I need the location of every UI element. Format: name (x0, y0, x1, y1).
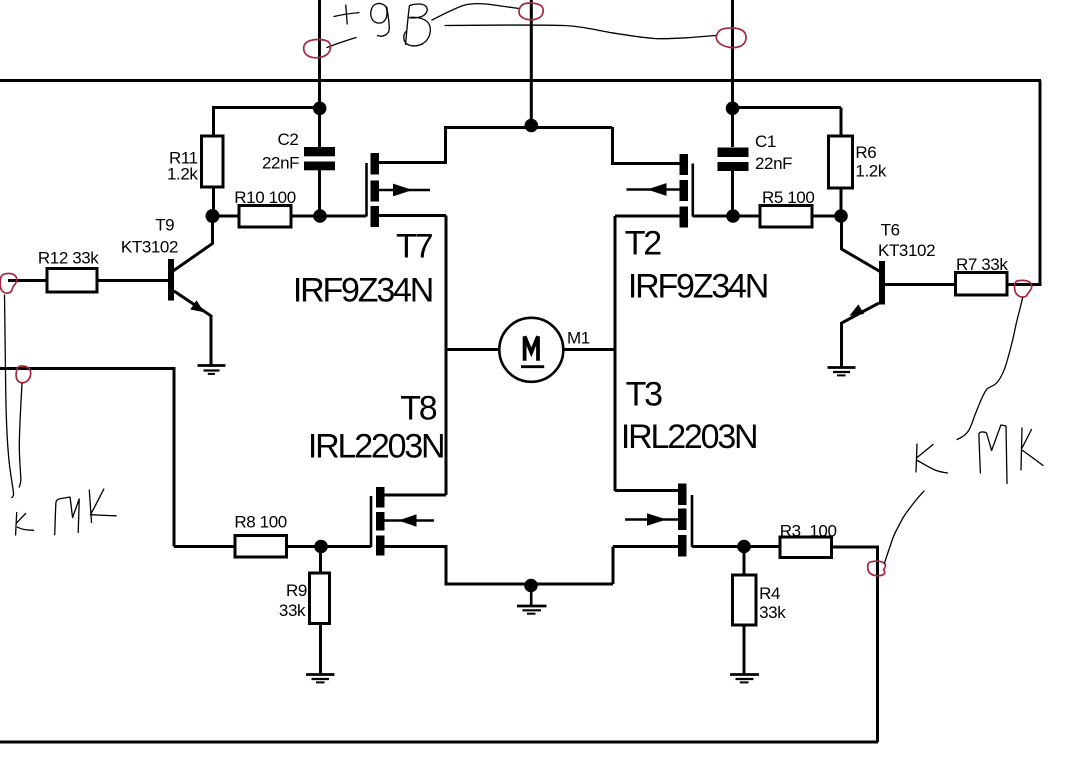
wire top link rail between T7 and T2 (444, 126, 612, 129)
node junction dot right supply (726, 102, 740, 116)
resistor R9 (310, 573, 330, 624)
resistor R8 (235, 536, 287, 558)
wire motor left lead (446, 348, 500, 351)
node junction dot R8/R9/T8 gate (314, 540, 328, 554)
svg-text:C2: C2 (278, 130, 299, 149)
svg-text:R7 33k: R7 33k (956, 255, 1008, 274)
svg-text:R10 100: R10 100 (234, 188, 295, 207)
svg-text:R4: R4 (759, 584, 780, 603)
svg-text:33k: 33k (759, 603, 786, 622)
handwriting right letter k (916, 444, 948, 473)
wire R3 to right vertical (832, 546, 880, 549)
handwriting left letter M (55, 497, 79, 535)
node junction dot C1/T2 gate (726, 209, 740, 223)
svg-text:M1: M1 (567, 329, 590, 348)
ground T9 (198, 364, 226, 367)
wire left edge to R12 (8, 279, 47, 282)
wire T7 source to top link (379, 127, 446, 164)
wire C2 node to T7 gate (320, 215, 366, 218)
handwriting letter V of +9V (404, 4, 431, 46)
red circle R3 output (868, 561, 886, 576)
wire T3 drain to right bridge node (615, 489, 678, 492)
wire right supply vertical (731, 0, 734, 147)
transistor T9 emitter arrow (190, 300, 204, 312)
handwriting right lead curve to R3 circle (885, 491, 925, 563)
transistor T3 body line and arrow (625, 518, 678, 521)
svg-text:IRF9Z34N: IRF9Z34N (293, 272, 432, 310)
svg-text:R9: R9 (286, 581, 307, 600)
svg-text:22nF: 22nF (262, 154, 299, 173)
motor M1 circle (499, 318, 563, 382)
resistor R9 leads (319, 547, 322, 675)
wire node to R10 (212, 215, 239, 218)
resistor R3 (780, 537, 832, 558)
svg-text:T6: T6 (881, 221, 900, 240)
node junction dot R11/R10/T9 (206, 209, 220, 223)
resistor R5 (760, 206, 812, 228)
wire node to T8 gate (321, 545, 371, 548)
node junction dot C2/R10/T7 gate (313, 209, 327, 223)
resistor R10 (239, 206, 291, 228)
red circle right supply tap (716, 28, 746, 48)
svg-text:R6: R6 (855, 143, 876, 162)
wire from left supply node to R11 (214, 108, 320, 137)
wire T3 gate to R3 (692, 545, 780, 548)
svg-text:KT3102: KT3102 (878, 241, 935, 260)
transistor T7 gate line (365, 163, 368, 217)
transistor T3 channel bars (678, 484, 687, 506)
ground R4 (730, 673, 759, 676)
red circle left lower input (16, 366, 31, 383)
handwriting plus sign of +9V (334, 5, 359, 24)
ground center (517, 605, 547, 608)
handwriting right letter K (1021, 428, 1043, 470)
transistor T7 body line and arrow (379, 189, 430, 192)
transistor T9 collector wire (173, 219, 213, 271)
wire top power rail (0, 79, 1041, 82)
node junction dot bottom ground (524, 579, 538, 593)
node junction dot left supply (313, 102, 327, 116)
wire right supply drop to R7 (1007, 81, 1040, 285)
handwriting squiggle V to middle circle (432, 4, 519, 20)
transistor T8 body line and arrow (385, 519, 435, 522)
wire C2 bottom to node (318, 170, 321, 210)
node junction dot middle top link (525, 119, 539, 133)
ground R9 (306, 673, 335, 676)
wire bottom ground link (445, 547, 614, 585)
resistor R4 (733, 575, 757, 625)
svg-text:KT3102: KT3102 (121, 238, 178, 257)
wire motor right lead (563, 348, 615, 351)
svg-text:IRF9Z34N: IRF9Z34N (628, 268, 767, 306)
svg-text:R8 100: R8 100 (234, 513, 286, 532)
wire R8 to R9 node (287, 545, 323, 548)
handwriting squiggle middle to right circle (445, 25, 717, 39)
capacitor C2 (304, 147, 335, 156)
svg-text:T2: T2 (625, 225, 662, 263)
transistor T8 channel bars (376, 487, 385, 508)
wire left MCU line to R8 (0, 367, 235, 547)
handwriting left letter k (16, 513, 34, 536)
transistor T6 emitter wire (842, 303, 880, 368)
red circle left R12 input (0, 273, 16, 293)
handwriting right letter M (979, 425, 1007, 484)
red circle left supply tap (304, 39, 331, 57)
node junction dot R6/R5/T6 (834, 209, 848, 223)
svg-text:R3 100: R3 100 (780, 522, 837, 541)
transistor T7 channel bars (371, 153, 380, 175)
transistor T9 base bar (168, 259, 174, 301)
svg-text:R12 33k: R12 33k (38, 249, 99, 268)
svg-text:33k: 33k (279, 601, 306, 620)
svg-text:T3: T3 (626, 376, 663, 414)
resistor R11 (202, 136, 224, 187)
handwriting left lead line 1 (5, 295, 14, 498)
svg-text:22nF: 22nF (755, 154, 792, 173)
motor M underline (521, 365, 544, 368)
resistor R7 (956, 273, 1008, 296)
handwriting left letter K (89, 489, 116, 523)
wire R6 bottom to node (840, 188, 843, 211)
ground center stem (530, 585, 533, 606)
wire T8 drain to left bridge node (385, 494, 447, 497)
transistor T6 emitter arrow (849, 304, 864, 315)
transistor T3 gate line (691, 495, 694, 547)
wire supply node to R6 (733, 108, 842, 137)
wire T8 source to bottom node (385, 545, 447, 584)
transistor T6 collector wire (842, 219, 881, 272)
svg-text:T8: T8 (400, 390, 437, 428)
transistor T8 gate line (370, 496, 373, 547)
wire C1 bottom to node (731, 171, 734, 210)
svg-text:IRL2203N: IRL2203N (621, 418, 757, 456)
handwriting left lead line 2 (19, 384, 22, 488)
wire T7 drain down left bridge node (379, 216, 446, 496)
wire R12 to T9 base (97, 279, 168, 282)
wire T3 source to bottom node (613, 545, 678, 548)
svg-text:1.2k: 1.2k (855, 162, 886, 181)
wire T6 base to R7 (885, 283, 956, 286)
resistor R6 (829, 136, 853, 188)
wire R5 to node (812, 215, 841, 218)
handwriting stroke from left supply circle (327, 38, 356, 48)
transistor T2 body line and arrow (627, 188, 680, 191)
handwriting digit 9 of +9V (371, 3, 389, 36)
resistor R12 (47, 269, 97, 293)
svg-text:IRL2203N: IRL2203N (308, 428, 444, 466)
wire T2 gate to R5 (693, 215, 760, 218)
svg-text:T7: T7 (396, 228, 433, 266)
wire middle supply vertical (530, 0, 533, 126)
wire T2 drain down right bridge node (615, 216, 680, 491)
svg-text:1.2k: 1.2k (167, 165, 198, 184)
resistor R4 leads (743, 547, 746, 675)
transistor T2 channel bars (680, 154, 689, 175)
wire R11 bottom to node (212, 187, 215, 211)
wire T2 source to top link (612, 127, 680, 165)
capacitor C1 (718, 148, 749, 158)
svg-text:C1: C1 (755, 132, 776, 151)
wire bottom rail (0, 741, 878, 744)
svg-text:T9: T9 (155, 216, 174, 235)
wire left supply vertical (318, 0, 321, 147)
transistor T6 base bar (879, 261, 885, 305)
wire R10 to C2 node (291, 215, 322, 218)
handwriting right lead curve from R7 circle (957, 298, 1023, 440)
transistor T2 gate line (691, 164, 694, 217)
ground T6 (828, 366, 856, 369)
red circle middle supply tap (519, 3, 543, 20)
node junction dot R4/T3 gate (737, 540, 751, 554)
motor M letter (525, 336, 538, 361)
transistor T9 emitter wire (174, 291, 211, 366)
wire right bottom vertical from R3 (876, 547, 879, 742)
red circle R7 output (1015, 280, 1032, 297)
svg-text:R5 100: R5 100 (762, 188, 814, 207)
